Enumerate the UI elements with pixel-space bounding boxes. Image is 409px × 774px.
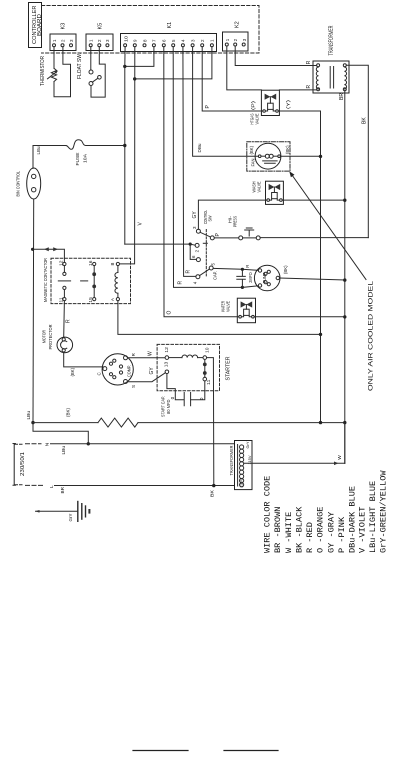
T1 terminal bottom-right <box>343 88 346 91</box>
svg-text:THERMISTOR: THERMISTOR <box>40 56 46 86</box>
svg-text:K2: K2 <box>235 21 241 28</box>
svg-text:12: 12 <box>58 260 63 266</box>
wire water valve to BR bus <box>254 316 345 318</box>
K5 pin 1 <box>89 44 92 47</box>
T1 core <box>330 67 333 89</box>
footer line 2 <box>224 750 278 752</box>
wire L dashed entry <box>26 484 45 486</box>
svg-text:GrY: GrY <box>68 513 73 521</box>
svg-text:R: R <box>66 319 72 323</box>
svg-text:BR: BR <box>339 93 345 100</box>
svg-text:B: B <box>110 263 115 266</box>
junction BR bus N <box>343 421 346 424</box>
fan motor FM <box>255 143 281 169</box>
svg-text:V -VIOLET: V -VIOLET <box>358 507 368 553</box>
wire N dashed entry <box>26 443 42 445</box>
svg-text:O -ORANGE: O -ORANGE <box>315 507 325 553</box>
control switch terminal 5 <box>209 266 213 270</box>
contactor main contact 12-11 <box>63 266 65 273</box>
motor protector MP <box>57 337 73 353</box>
T1 terminal top-left <box>317 64 320 67</box>
controller board dashed outline <box>42 6 260 54</box>
svg-text:START CAP.: START CAP. <box>161 396 166 417</box>
wire wash valve to BR bus <box>282 199 345 201</box>
controller board label box <box>29 3 42 48</box>
wire contactor 11 to motor protector (R) <box>63 301 66 338</box>
control switch terminal 6 <box>196 258 200 262</box>
label CONTROL SW <box>203 210 213 224</box>
wire K1 pin10 down <box>124 47 126 244</box>
svg-text:K1: K1 <box>167 22 173 29</box>
label WASH VALVE <box>251 181 261 192</box>
label START CAP. 80 MFD <box>161 396 171 417</box>
starter coil <box>169 357 182 359</box>
svg-text:BR -BROWN: BR -BROWN <box>273 507 283 553</box>
contactor contact 16-15 <box>93 266 95 273</box>
wire fan to Y bus <box>280 155 320 157</box>
svg-text:11: 11 <box>206 379 211 385</box>
K5 pin 3 <box>106 44 109 47</box>
wire K1 pin2 P to hot gas valve <box>202 47 263 111</box>
K1 pin 7 <box>152 44 155 47</box>
wire K2 pin1 to hot gas valve box to T1 (R) <box>227 46 317 90</box>
transformer T2 (starter transformer) <box>235 441 253 490</box>
compressor terminal labels <box>97 352 137 388</box>
svg-text:10: 10 <box>123 35 128 42</box>
contactor terminal 15 <box>93 298 96 301</box>
svg-text:PRESS: PRESS <box>232 216 237 227</box>
connector arrows on branch <box>44 247 58 251</box>
svg-text:10A: 10A <box>82 153 88 163</box>
wire N to transformer <box>51 443 235 445</box>
K3 pin 3 <box>70 44 73 47</box>
K1 pin 2 <box>201 44 204 47</box>
wire T2 115V to BR bus (W) <box>244 462 345 464</box>
starter terminal 10 <box>203 356 207 360</box>
wire T1 bottom-right BR bus <box>344 91 346 464</box>
K1 pin 6 <box>162 44 165 47</box>
svg-text:(P): (P) <box>251 100 256 110</box>
svg-text:ONLY AIR COOLED MODEL: ONLY AIR COOLED MODEL <box>368 281 375 391</box>
wire bin branch to contactor 12 <box>33 249 65 262</box>
svg-text:P -PINK: P -PINK <box>337 516 347 553</box>
K1 pin 8 <box>143 44 146 47</box>
svg-text:11: 11 <box>58 296 63 302</box>
wire pin10 to control sw node <box>125 243 190 245</box>
svg-text:FUSE: FUSE <box>75 153 81 166</box>
K1 pin 9 <box>133 44 136 47</box>
svg-text:10: 10 <box>204 347 209 353</box>
junction fan bus <box>319 155 322 158</box>
wire fuse line (bin control to K1 pin10) <box>33 145 66 147</box>
svg-text:R: R <box>178 281 184 285</box>
supply bracket 230/50/1 <box>13 444 15 484</box>
control switch terminal 4 <box>196 275 200 279</box>
K2 pin 2 <box>234 43 237 46</box>
resistor R (crankcase) <box>98 418 138 427</box>
svg-text:13: 13 <box>163 361 168 367</box>
contactor terminal 11 <box>63 298 66 301</box>
svg-text:FAN: FAN <box>250 159 255 167</box>
junction N lead <box>87 442 90 445</box>
wire comp S to starter 13 (GY) <box>128 373 166 382</box>
K5 pin labels <box>89 39 111 42</box>
water valve WTV <box>237 298 255 323</box>
wire T1 top-right to BK drop <box>346 65 368 237</box>
control switch lever 3-P <box>200 232 210 237</box>
svg-text:BOARD: BOARD <box>37 14 43 36</box>
control switch link dashes <box>205 230 207 278</box>
K2 pin labels <box>225 38 247 41</box>
wire color code table <box>263 470 389 553</box>
junction A-line bus <box>319 333 322 336</box>
junction Y bus N <box>319 421 322 424</box>
svg-text:LBu: LBu <box>61 445 66 454</box>
svg-text:GrY: GrY <box>246 441 250 448</box>
starter box <box>157 344 219 390</box>
capacitor 2MFD <box>237 269 246 287</box>
svg-text:GrY-GREEN/YELLOW: GrY-GREEN/YELLOW <box>379 470 389 553</box>
transformer T1 (board transformer) <box>313 61 349 93</box>
K1 pin labels <box>123 35 214 42</box>
svg-text:VALVE: VALVE <box>256 181 261 192</box>
svg-text:BR: BR <box>60 487 65 494</box>
svg-text:K5: K5 <box>98 23 104 30</box>
wire K1 pin4 R to control sw 4 <box>183 47 196 277</box>
hi-press switch HP <box>239 236 243 240</box>
svg-text:15: 15 <box>88 296 93 302</box>
svg-text:12: 12 <box>164 346 169 352</box>
svg-text:FLOAT SW.: FLOAT SW. <box>77 53 83 79</box>
control switch lever 4-5 <box>200 269 210 276</box>
wire contactor A down and right <box>118 301 321 335</box>
svg-text:DBu-DARK BLUE: DBu-DARK BLUE <box>347 486 357 553</box>
contactor coil <box>117 266 119 273</box>
svg-text:TRANSFORMER: TRANSFORMER <box>328 25 335 55</box>
svg-text:N: N <box>44 442 50 446</box>
T1 primary coil <box>316 67 318 89</box>
svg-text:LBu: LBu <box>26 410 31 419</box>
svg-text:W: W <box>148 351 154 356</box>
start capacitor 80MFD <box>184 393 190 406</box>
K1 pin 10 <box>124 44 127 47</box>
wire bin control drop <box>32 146 34 169</box>
svg-text:WIRE COLOR CODE: WIRE COLOR CODE <box>263 476 273 553</box>
svg-text:(BK): (BK) <box>70 367 75 376</box>
connector K1 <box>121 34 217 52</box>
starter contact 10-11 <box>204 359 206 362</box>
wire N riser <box>33 423 88 444</box>
label WATER VALVE <box>221 301 231 312</box>
svg-text:W: W <box>337 455 343 460</box>
label CONTROLLER BOARD <box>32 5 43 44</box>
svg-text:VALVE: VALVE <box>255 113 260 124</box>
svg-text:R: R <box>306 85 312 89</box>
ground symbol <box>77 502 79 522</box>
K3 pin 1 <box>53 44 56 47</box>
wire BR bus to T2 output corner <box>344 423 346 464</box>
wire K1 pin7 jog <box>125 47 154 67</box>
K5 pin 2 <box>98 44 101 47</box>
svg-text:VALVE: VALVE <box>226 301 231 312</box>
K1 pin 3 <box>191 44 194 47</box>
svg-text:A: A <box>110 298 115 301</box>
svg-text:LBu: LBu <box>36 146 41 155</box>
svg-text:R: R <box>245 265 250 268</box>
junction node 2-6 <box>189 243 192 246</box>
junction pin9-pin1 <box>133 77 136 80</box>
junction cap top <box>241 268 244 271</box>
svg-text:K3: K3 <box>61 23 67 30</box>
W arrowhead <box>334 462 339 466</box>
contactor terminal A <box>116 298 119 301</box>
wire N horizontal segment <box>33 422 98 424</box>
K1 pin 1 <box>210 44 213 47</box>
wash valve WV <box>266 181 284 204</box>
svg-text:BK -BLACK: BK -BLACK <box>294 506 304 553</box>
svg-text:R -RED: R -RED <box>305 522 315 553</box>
connector K3 <box>50 34 76 51</box>
T1 terminal bottom-left <box>317 88 320 91</box>
svg-text:(Y): (Y) <box>286 99 291 109</box>
svg-text:GY -GRAY: GY -GRAY <box>326 512 336 553</box>
T2 labels <box>240 441 252 487</box>
K2 pin 1 <box>225 43 228 46</box>
K2 pin 3 <box>242 43 245 46</box>
footer line 1 <box>133 750 188 752</box>
T2 winding <box>240 445 244 449</box>
svg-text:230V: 230V <box>240 478 244 487</box>
junction pin10-pin7 <box>123 65 126 68</box>
K1 pin 4 <box>181 44 184 47</box>
wire L to transformer <box>55 485 235 487</box>
junction bin branch <box>31 248 34 251</box>
wire bin control to N line <box>32 199 35 423</box>
svg-text:BK: BK <box>210 490 215 497</box>
wire K1 pin5 R to pump bottom <box>173 47 242 288</box>
wire starter 13 to start cap <box>167 374 184 400</box>
cap labels 0 0 <box>170 396 204 400</box>
label MOTOR PROTECTOR <box>42 325 54 350</box>
svg-text:SW: SW <box>208 215 213 222</box>
control switch terminal 2 <box>195 243 199 247</box>
wire cap bottom to pump bottom <box>242 286 258 288</box>
wire K1 pin1 jog <box>135 47 212 79</box>
wire resistor to BR bus <box>138 422 345 424</box>
svg-text:CAP.: CAP. <box>213 271 218 280</box>
ground GrY lead <box>36 510 78 512</box>
contactor terminal 12 <box>63 262 66 265</box>
wire float sw return to K5 pin2 <box>91 47 105 97</box>
svg-text:BIN CONTROL: BIN CONTROL <box>15 170 20 196</box>
fan motor FM box <box>247 142 290 171</box>
junction N-resistor-bin <box>31 421 34 424</box>
wire node to terminal 6 <box>190 244 196 259</box>
svg-text:MAGNETIC CONTACTOR: MAGNETIC CONTACTOR <box>43 258 48 302</box>
wire starter 10 to BK drop <box>207 358 214 486</box>
wire K2 pin2 to T1 (R) <box>235 46 316 66</box>
only air cooled arrow <box>293 176 366 280</box>
connector K2 <box>223 32 249 51</box>
svg-text:R: R <box>306 60 312 64</box>
wire BK to hi-press <box>260 237 368 239</box>
svg-text:16: 16 <box>88 260 93 266</box>
contactor terminal labels <box>58 260 115 303</box>
svg-text:PUMP: PUMP <box>262 273 267 284</box>
pump motor PM <box>254 265 280 291</box>
bin control BC <box>27 168 41 199</box>
svg-text:(BK): (BK) <box>283 265 288 274</box>
svg-text:STARTER: STARTER <box>225 356 231 380</box>
wire K1 pin3 DBu to fan <box>193 47 259 157</box>
wire pump to BR bus <box>280 278 345 280</box>
wire K3 pin1 to thermistor <box>53 47 55 69</box>
starter terminal 12 <box>165 356 169 360</box>
svg-text:COMP.: COMP. <box>127 365 132 377</box>
T1 terminal top-right <box>343 64 346 67</box>
svg-text:2MFD: 2MFD <box>248 272 253 283</box>
K3 pin 2 <box>61 44 64 47</box>
starter terminal 13 <box>165 370 169 374</box>
thermistor R (zigzag with arrow) <box>51 68 56 81</box>
svg-text:TRANSFORMER: TRANSFORMER <box>229 445 235 475</box>
wire hot gas valve to Y bus <box>278 111 320 423</box>
svg-text:S: S <box>131 385 136 388</box>
svg-text:230/50/1: 230/50/1 <box>20 452 26 476</box>
label HTGAS VALVE <box>250 113 260 124</box>
wire protector to comp C (BK) <box>64 352 103 368</box>
label FUSE 10A <box>75 153 88 166</box>
wire comp R to starter 12 (W) <box>128 357 166 359</box>
wire ctrl5 to cap to pump top <box>213 268 258 270</box>
junction pump BR <box>343 278 346 281</box>
svg-text:DBu: DBu <box>197 143 202 152</box>
control switch terminal P side <box>210 236 214 240</box>
label HI- PRESS <box>227 215 237 227</box>
wire start cap to starter 11 <box>191 381 205 400</box>
float switch FS <box>89 70 93 74</box>
K3 pin labels <box>52 39 74 42</box>
contactor terminal 16 <box>93 262 96 265</box>
T1 secondary coil <box>344 67 346 89</box>
hot gas valve HGV <box>261 90 279 115</box>
junction BK on L <box>212 484 215 487</box>
contactor terminal B <box>116 262 119 265</box>
wire thermistor return to K3 pin2 <box>54 47 71 97</box>
svg-text:BK: BK <box>362 117 368 124</box>
K1 pin 5 <box>172 44 175 47</box>
junction fuse <box>123 144 126 147</box>
svg-text:PROTECTOR: PROTECTOR <box>48 325 53 350</box>
magnetic contactor box <box>51 258 131 303</box>
svg-text:(BK): (BK) <box>66 407 71 417</box>
wire K1 pin6 O to water valve <box>164 47 239 317</box>
svg-text:80 MFD: 80 MFD <box>166 399 171 414</box>
compressor COMP <box>102 354 133 385</box>
fuse F1 10A <box>66 140 92 150</box>
svg-text:W -WHITE: W -WHITE <box>284 512 294 553</box>
svg-text:R: R <box>186 270 192 274</box>
svg-text:MOTOR: MOTOR <box>42 330 47 343</box>
svg-text:O: O <box>167 311 173 315</box>
svg-text:(BK): (BK) <box>285 145 290 154</box>
wire K1 pin9 down to contactor coil B <box>120 47 135 264</box>
svg-text:LBu-LIGHT BLUE: LBu-LIGHT BLUE <box>368 481 378 553</box>
connector K5 <box>86 34 113 51</box>
junction cap bottom <box>241 286 244 289</box>
wire wash valve GY to control sw 3 <box>198 200 267 229</box>
junction wash BR <box>343 199 346 202</box>
svg-text:(BK): (BK) <box>249 145 254 154</box>
starter terminal 11 <box>203 377 207 381</box>
svg-text:L: L <box>49 485 55 488</box>
wire node to terminal 2 <box>190 244 195 245</box>
svg-text:GY: GY <box>149 367 155 375</box>
wire K5 pin1 to float sw <box>90 47 92 70</box>
junction water BR <box>343 315 346 318</box>
svg-text:GY: GY <box>192 211 198 219</box>
control switch terminal 3 <box>196 229 200 233</box>
